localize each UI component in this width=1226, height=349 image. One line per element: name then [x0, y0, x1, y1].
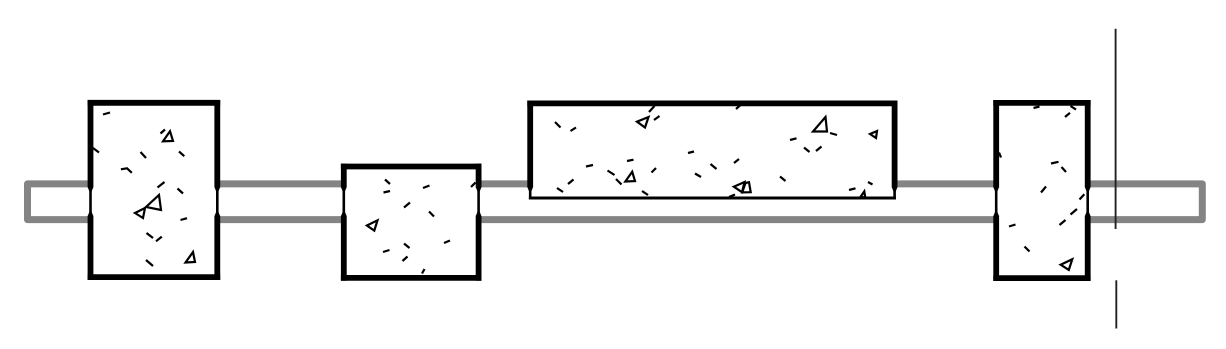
shaft top segment between block 2 and block 3 [479, 180, 531, 187]
block 4 border tapers at shaft junctions [993, 187, 1090, 216]
shaft right capped segment [1088, 184, 1203, 220]
block 3 border tapers at shaft junction [527, 187, 897, 192]
block 1 outline [88, 100, 221, 280]
shaft left capped segment [28, 184, 91, 220]
block 3 concrete hatch [555, 105, 877, 198]
block 3 outline [527, 101, 897, 200]
block 4 outline [993, 100, 1090, 281]
shaft segment between block 1 and block 2 [217, 184, 343, 220]
block 1 border tapers at shaft junctions [88, 187, 221, 216]
block 2 outline [341, 164, 482, 281]
match line upper segment [1115, 29, 1117, 229]
block 2 border tapers at shaft junctions [341, 187, 482, 216]
shaft bottom segment passing under block 3 [479, 216, 997, 223]
block 1 concrete hatch [93, 113, 195, 267]
match line lower segment [1115, 280, 1117, 328]
shaft top segment between block 3 and block 4 [895, 180, 997, 187]
block 2 concrete hatch [367, 180, 476, 274]
block 4 concrete hatch [999, 106, 1084, 270]
